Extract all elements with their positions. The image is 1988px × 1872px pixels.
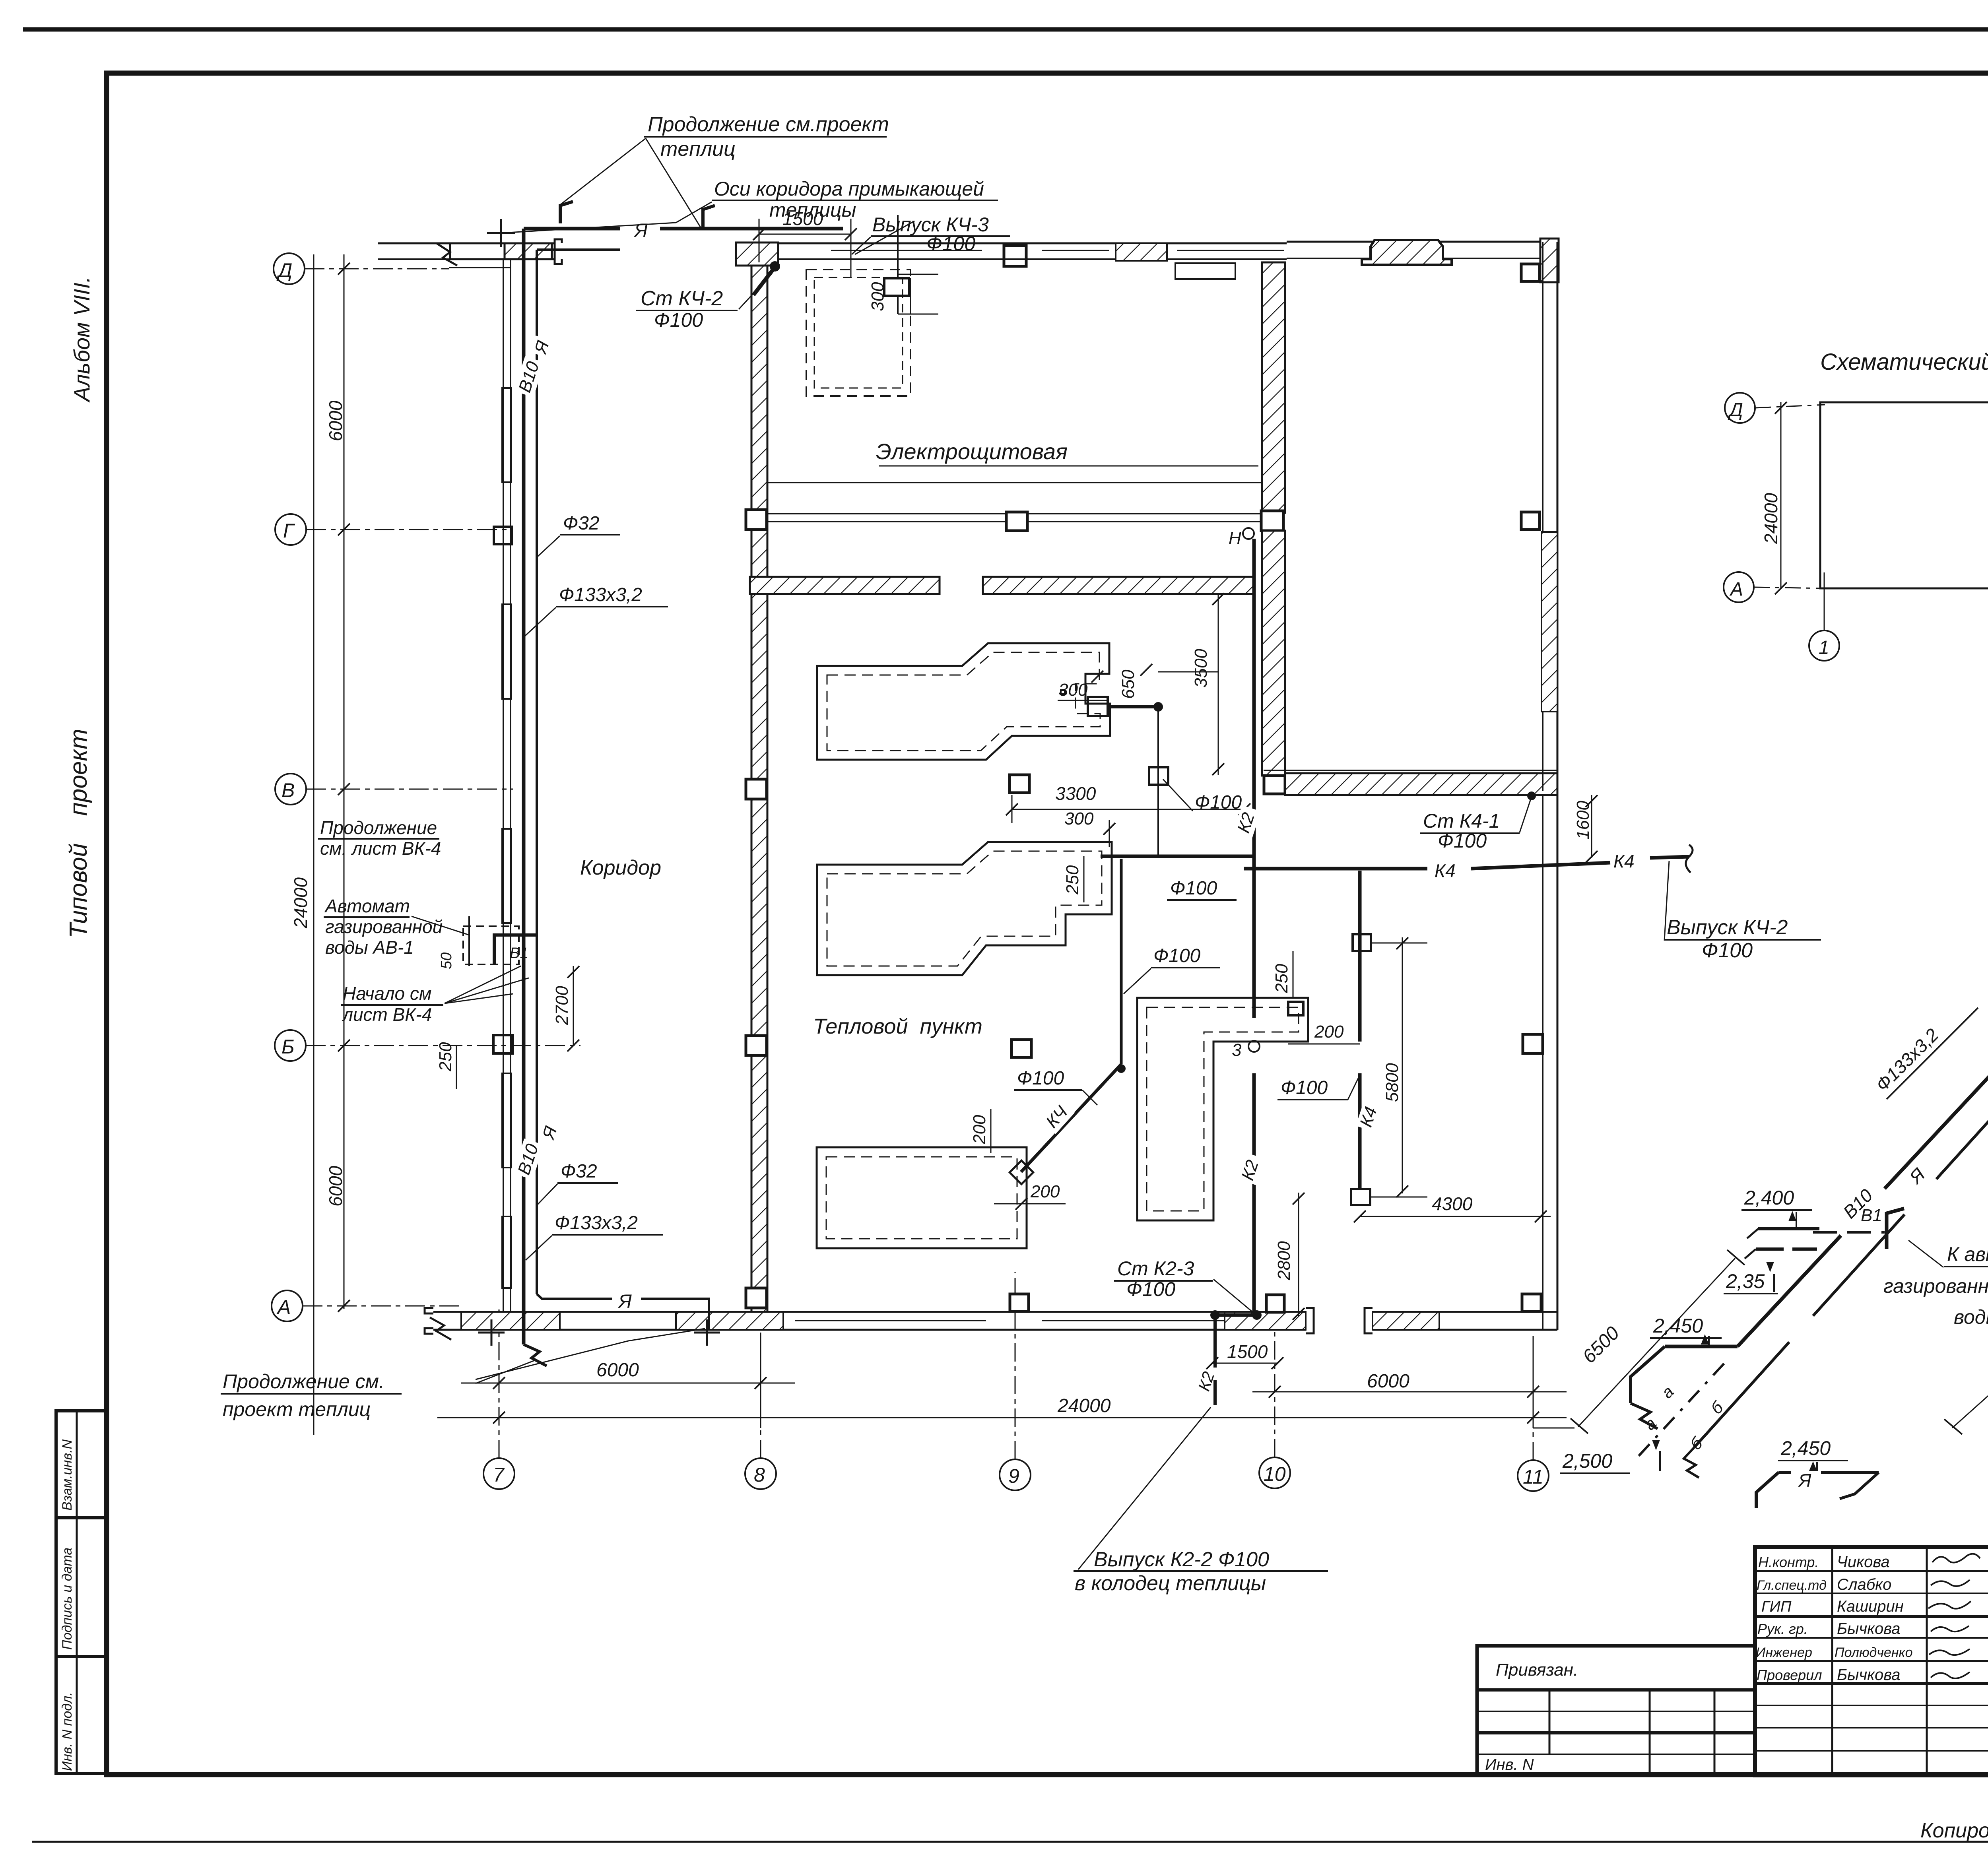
svg-text:6000: 6000 <box>1367 1371 1409 1392</box>
schematic axis circle Д <box>1725 393 1755 423</box>
pipe В10 vertical <box>522 229 526 1344</box>
left dimension line <box>344 254 345 1309</box>
axis line Г <box>306 529 513 530</box>
svg-text:7: 7 <box>493 1464 505 1486</box>
svg-text:Слабко: Слабко <box>1837 1576 1891 1593</box>
labels К2 on stack <box>1233 805 1261 838</box>
svg-text:Ф100: Ф100 <box>1195 792 1242 813</box>
annex table box Привязан <box>1477 1646 1755 1775</box>
svg-text:2,400: 2,400 <box>1744 1187 1794 1209</box>
svg-text:Выпуск КЧ-2: Выпуск КЧ-2 <box>1667 916 1788 939</box>
svg-text:Бычкова: Бычкова <box>1837 1666 1901 1684</box>
south wall column block 10 <box>1266 1295 1284 1312</box>
horizontal pipe Ф100 <box>1101 855 1252 858</box>
svg-text:Ф100: Ф100 <box>1702 939 1753 962</box>
west wall window slot 3 <box>502 829 511 923</box>
К4 vertical stack <box>1358 871 1362 1042</box>
labels В10 Я lower <box>513 1139 544 1180</box>
west exterior wall lines <box>503 259 504 1312</box>
svg-text:24000: 24000 <box>290 877 311 929</box>
svg-text:Привязан.: Привязан. <box>1496 1660 1578 1680</box>
heat point valve <box>1088 697 1108 716</box>
svg-text:Г: Г <box>283 520 295 542</box>
south wall east segment <box>1373 1311 1557 1313</box>
svg-text:Бычкова: Бычкова <box>1837 1620 1901 1637</box>
transformer SW corner block <box>1264 776 1285 794</box>
top wall hatched pier 1 <box>1116 243 1167 261</box>
svg-text:1600: 1600 <box>1573 801 1593 840</box>
svg-text:Коридор: Коридор <box>580 856 661 879</box>
electrical room west end cap <box>736 242 778 266</box>
labels В10 Я on risers <box>514 356 545 398</box>
witness drop 8 <box>760 1336 761 1428</box>
corridor east wall column at В <box>746 779 767 799</box>
sheet outer top line <box>23 27 1988 32</box>
valve square mid <box>1149 767 1168 785</box>
svg-text:Инв. N: Инв. N <box>1485 1756 1534 1773</box>
svg-text:Полюдченко: Полюдченко <box>1835 1645 1913 1660</box>
svg-text:8: 8 <box>754 1464 765 1486</box>
svg-text:250: 250 <box>1063 865 1082 895</box>
schematic axis dashes Д <box>1755 405 1825 408</box>
bottom axis circle 9 <box>1000 1459 1031 1490</box>
equipment 2 outline <box>817 842 1112 975</box>
svg-text:В1: В1 <box>1861 1206 1882 1225</box>
dim 24800 diagonal line <box>1952 877 1988 1428</box>
svg-text:Д: Д <box>1728 400 1743 421</box>
axono Я diagonal <box>1694 1342 1789 1447</box>
svg-text:Ф100: Ф100 <box>1170 878 1217 899</box>
svg-text:300: 300 <box>1064 809 1094 828</box>
soda machine dashed box <box>806 270 911 396</box>
svg-text:50: 50 <box>438 952 455 969</box>
equipment 3 outline <box>817 1147 1027 1248</box>
axono В10 bottom step <box>1665 1345 1738 1348</box>
svg-text:2,450: 2,450 <box>1780 1437 1831 1459</box>
svg-text:Начало см: Начало см <box>343 983 431 1004</box>
svg-text:650: 650 <box>1118 669 1138 699</box>
axis circle Г <box>275 514 306 545</box>
КЧ-3 valve <box>884 278 909 296</box>
svg-text:300: 300 <box>868 282 887 311</box>
schematic axis dashes А <box>1754 587 1825 588</box>
side stamp divider rows <box>56 1516 107 1519</box>
link wall lower flange <box>449 267 511 268</box>
equipment 4 Г-shape <box>1137 998 1308 1220</box>
south wall column block 9 <box>1010 1294 1029 1311</box>
south wall west part <box>433 1311 1306 1313</box>
svg-text:Ст К4-1: Ст К4-1 <box>1423 810 1500 832</box>
svg-text:6000: 6000 <box>325 400 346 441</box>
axis circle Б <box>275 1030 306 1061</box>
svg-text:200: 200 <box>1030 1182 1060 1201</box>
signatures squiggles <box>1932 1554 1980 1563</box>
pipe Я vertical <box>536 250 538 1294</box>
left side stamp box <box>56 1411 107 1773</box>
schematic axis drop 1 <box>1824 572 1825 630</box>
svg-text:Ф133х3,2: Ф133х3,2 <box>555 1212 638 1234</box>
bottom dim line 6000 span 7-8 <box>461 1383 795 1384</box>
svg-text:250: 250 <box>436 1042 455 1072</box>
bottom dim line 24000 <box>437 1417 1567 1418</box>
svg-text:5800: 5800 <box>1382 1063 1402 1102</box>
svg-text:Инженер: Инженер <box>1756 1645 1812 1660</box>
node 3 circle <box>1248 1041 1260 1052</box>
transformer east column <box>1521 512 1540 530</box>
svg-text:Инв. N подл.: Инв. N подл. <box>60 1692 75 1771</box>
svg-text:3: 3 <box>1232 1040 1242 1060</box>
transformer west wall lower <box>1262 531 1285 776</box>
КЧ diamond at wall <box>1010 1160 1033 1184</box>
bottom axis circle 11 <box>1518 1460 1549 1491</box>
transformer west wall upper <box>1262 262 1285 513</box>
survey cross bottom left <box>478 1319 505 1346</box>
vent boxes under top wall <box>1175 263 1235 279</box>
svg-text:Схематический план: Схематический план <box>1820 349 1988 375</box>
svg-text:Электрощитовая: Электрощитовая <box>876 439 1068 464</box>
heat point north wall east segment <box>983 577 1254 594</box>
svg-text:Проверил: Проверил <box>1757 1667 1822 1683</box>
svg-text:2,450: 2,450 <box>1653 1315 1703 1337</box>
schematic axis circle 1 <box>1809 630 1839 661</box>
drop from node <box>1157 707 1159 856</box>
svg-text:Продолжение см.: Продолжение см. <box>223 1370 384 1393</box>
svg-text:24000: 24000 <box>1057 1395 1111 1416</box>
svg-text:250: 250 <box>1272 964 1291 993</box>
south wall break mark <box>430 1317 451 1340</box>
electrical room glazed partition <box>767 513 1262 514</box>
axis line Б <box>306 1045 580 1046</box>
svg-text:Подпись и дата: Подпись и дата <box>60 1548 75 1650</box>
svg-text:Ф32: Ф32 <box>561 1161 597 1182</box>
svg-text:Продолжение: Продолжение <box>320 817 437 838</box>
axis line А <box>303 1306 463 1307</box>
west wall window slot 4 <box>502 1073 511 1168</box>
svg-text:В: В <box>282 779 295 801</box>
flag 2,35 line <box>1756 1247 1817 1251</box>
top wall column block <box>1004 246 1026 266</box>
К2 outlet drop <box>1215 1313 1257 1317</box>
svg-text:4300: 4300 <box>1432 1193 1473 1214</box>
signature table texts <box>1485 1553 1988 1842</box>
svg-text:Н: Н <box>1229 528 1241 548</box>
flag 2,400 line <box>1758 1227 1819 1230</box>
svg-text:Я: Я <box>633 220 648 241</box>
dashed branch а-б <box>1638 1364 1724 1457</box>
axis 7 centerline <box>499 1308 500 1458</box>
КЧ diagonal dot <box>1117 1064 1126 1073</box>
svg-text:10: 10 <box>1264 1463 1286 1485</box>
riser mark right <box>703 206 715 229</box>
east wall column bottom <box>1522 1294 1541 1311</box>
dim 6500 diagonal <box>1578 1258 1735 1427</box>
svg-text:Гл.спец.тд: Гл.спец.тд <box>1757 1578 1827 1593</box>
К4 top square <box>1353 934 1371 951</box>
bottom axis circle 8 <box>745 1458 776 1489</box>
transformer top wall hatched pier <box>1362 240 1452 265</box>
axis circle В <box>275 774 306 805</box>
svg-text:1: 1 <box>1819 637 1829 658</box>
svg-text:Альбом VIII.: Альбом VIII. <box>69 276 94 403</box>
svg-text:лист ВК-4: лист ВК-4 <box>342 1004 432 1025</box>
svg-text:Я: Я <box>617 1291 632 1312</box>
east exterior wall lower <box>1542 795 1543 1330</box>
thin line from 11 axis to 6500 <box>1533 1428 1574 1429</box>
bottom axis circle 10 <box>1259 1457 1290 1488</box>
label КЧ on diagonal <box>1041 1099 1075 1134</box>
south wall window line 2 <box>1042 1320 1225 1321</box>
dim ticks left <box>338 263 350 275</box>
axis circle Д <box>274 253 305 284</box>
svg-text:200: 200 <box>970 1115 989 1145</box>
bottom axis circle 7 <box>483 1458 514 1489</box>
schematic rectangle <box>1820 402 1988 588</box>
svg-text:Продолжение см.проект: Продолжение см.проект <box>648 113 889 136</box>
leader lines top label <box>560 138 646 205</box>
svg-text:К4: К4 <box>1613 851 1635 871</box>
bottom Я branch <box>1778 1471 1791 1474</box>
black dot on electrical wall <box>770 261 780 272</box>
west wall window slot 5 <box>502 1216 511 1288</box>
pipe Я top run to riser <box>660 227 843 231</box>
axono В10 bottom tail <box>1631 1346 1665 1403</box>
КЧ diagonal pipe <box>1021 1064 1121 1172</box>
svg-text:Б: Б <box>282 1036 295 1058</box>
К2 stack vertical <box>1252 539 1256 1018</box>
transformer NE corner pier <box>1540 239 1559 282</box>
svg-text:Тепловой пункт: Тепловой пункт <box>813 1015 982 1038</box>
svg-text:2700: 2700 <box>552 986 572 1025</box>
schematic axis circle А <box>1724 572 1754 602</box>
svg-text:Оси коридора примыкающей: Оси коридора примыкающей <box>714 178 984 200</box>
svg-text:воды АВ-1: воды АВ-1 <box>325 937 414 958</box>
south wall window line 1 <box>795 1320 986 1321</box>
corridor east wall <box>751 266 767 1312</box>
top wall window sill lines <box>831 250 982 251</box>
south wall opening cap <box>1306 1308 1314 1333</box>
svg-text:в колодец теплицы: в колодец теплицы <box>1075 1572 1266 1595</box>
svg-text:Чикова: Чикова <box>1837 1553 1890 1571</box>
svg-text:Я: Я <box>1798 1470 1811 1491</box>
svg-text:300: 300 <box>1058 680 1088 700</box>
south wall hatched pier b <box>676 1312 783 1330</box>
witness drop 11 right <box>1533 1336 1534 1428</box>
svg-text:Ст К2-3: Ст К2-3 <box>1117 1257 1194 1280</box>
svg-text:1500: 1500 <box>1227 1341 1268 1362</box>
east wall column mid <box>1523 1034 1543 1053</box>
transformer south wall <box>1264 770 1557 771</box>
svg-text:6000: 6000 <box>596 1360 639 1381</box>
svg-text:Каширин: Каширин <box>1837 1598 1904 1615</box>
svg-text:Н.контр.: Н.контр. <box>1758 1554 1819 1570</box>
heat point north wall west segment <box>750 577 940 594</box>
corridor east wall column at А <box>746 1288 767 1308</box>
title block signature columns <box>1831 1547 1833 1775</box>
break mark on link wall <box>437 243 457 266</box>
svg-text:11: 11 <box>1523 1466 1543 1488</box>
corridor east wall column at Г <box>746 510 767 530</box>
svg-text:2,35: 2,35 <box>1726 1270 1765 1292</box>
pipe Я top corner <box>524 227 620 231</box>
svg-text:Ф32: Ф32 <box>563 513 600 534</box>
south wall hatched pier c <box>1225 1312 1306 1330</box>
svg-text:К4: К4 <box>1435 860 1456 881</box>
svg-text:9: 9 <box>1008 1465 1019 1487</box>
svg-text:В1: В1 <box>510 945 528 962</box>
axis line В <box>306 789 513 790</box>
vertical pipe Ф100 <box>1120 859 1123 1064</box>
axono В10 main diagonal <box>1738 1236 1841 1346</box>
riser mark left <box>560 202 573 223</box>
heat point stub horizontal <box>1108 705 1158 708</box>
transformer top wall <box>1287 241 1543 243</box>
west wall column at Б <box>493 1035 513 1053</box>
bottom dim line 6000 span 10-11 <box>1252 1391 1567 1393</box>
glazed partition center column <box>1006 512 1027 531</box>
svg-text:газированной: газированной <box>1883 1275 1988 1297</box>
pipe Я bottom run <box>537 1294 612 1299</box>
pipe В10 bottom hook <box>524 1344 547 1366</box>
svg-text:газированной: газированной <box>325 916 443 937</box>
heat point pipe node dot <box>1153 702 1163 712</box>
svg-text:воды: воды <box>1954 1306 1988 1328</box>
svg-text:Ст КЧ-2: Ст КЧ-2 <box>641 287 723 310</box>
side stamp divider vertical <box>76 1411 78 1773</box>
equipment 1 outline <box>817 643 1110 760</box>
svg-text:200: 200 <box>1314 1022 1344 1042</box>
equipment inner square of Г <box>1288 1002 1303 1015</box>
schematic vdim 24000 <box>1780 402 1782 588</box>
Ст КЧ-2 diagonal tick <box>753 269 774 295</box>
survey cross top left <box>487 219 515 247</box>
svg-text:Выпуск К2-2 Ф100: Выпуск К2-2 Ф100 <box>1094 1548 1269 1571</box>
svg-text:Ф100: Ф100 <box>654 309 703 331</box>
svg-text:Ф133х3,2: Ф133х3,2 <box>559 584 642 605</box>
transformer east wall <box>1542 242 1543 791</box>
svg-text:К автомату: К автомату <box>1947 1243 1988 1265</box>
south wall end cap left <box>425 1308 433 1334</box>
svg-text:3300: 3300 <box>1055 783 1096 804</box>
equipment square heat point <box>1010 775 1029 793</box>
valve square on soda pipe <box>1061 690 1065 694</box>
svg-text:Ф100: Ф100 <box>1281 1077 1328 1098</box>
К4 bottom square <box>1351 1189 1370 1205</box>
sheet bottom thin line <box>32 1841 1988 1843</box>
Вypusk КЧ-3 drop line <box>897 215 899 278</box>
svg-text:6000: 6000 <box>325 1166 346 1207</box>
svg-text:Ф100: Ф100 <box>1153 945 1201 966</box>
svg-text:2,500: 2,500 <box>1562 1450 1612 1472</box>
title block outer box <box>1755 1547 1988 1775</box>
axis circle А <box>272 1290 303 1321</box>
svg-text:Ф100: Ф100 <box>1017 1068 1064 1089</box>
transformer NE column block <box>1521 264 1540 281</box>
corridor east wall column at Б <box>746 1036 767 1055</box>
node Н circle <box>1243 528 1254 539</box>
svg-text:3500: 3500 <box>1191 649 1211 688</box>
west wall window slot 2 <box>502 604 511 699</box>
axis line Д <box>305 268 449 270</box>
label К4 rotated <box>1355 1099 1383 1132</box>
В1 branch symbol <box>1887 1209 1904 1249</box>
transformer east wall hatched segment <box>1541 532 1557 712</box>
svg-text:Копировал Полякова: Копировал Полякова <box>1920 1819 1988 1842</box>
axis 10 centerline <box>1274 1312 1276 1457</box>
svg-text:Рук. гр.: Рук. гр. <box>1757 1621 1808 1637</box>
svg-text:1500: 1500 <box>782 208 823 229</box>
svg-text:Типовой проект: Типовой проект <box>65 729 92 938</box>
survey cross bottom mid <box>694 1319 720 1346</box>
axis 8 centerline <box>760 1312 761 1458</box>
title block signature rows <box>1755 1570 1988 1572</box>
dashed branch to В1 <box>1813 1231 1885 1234</box>
svg-text:А: А <box>276 1296 291 1318</box>
КЧ break mark <box>1686 845 1693 873</box>
svg-text:ГИП: ГИП <box>1761 1598 1792 1615</box>
svg-text:Д: Д <box>276 259 292 281</box>
svg-text:А: А <box>1729 579 1743 600</box>
svg-text:теплиц: теплиц <box>660 138 736 161</box>
axis 9 centerline <box>1015 1272 1016 1459</box>
electrical room floor line <box>767 482 1262 483</box>
svg-text:24000: 24000 <box>1761 493 1781 544</box>
wall end cap at corridor top <box>555 239 562 264</box>
soda machine connection АВ-1 <box>463 926 519 964</box>
svg-text:см. лист ВК-4: см. лист ВК-4 <box>320 838 441 859</box>
svg-text:проект теплиц: проект теплиц <box>223 1398 371 1420</box>
axis 11 centerline <box>1533 1336 1534 1460</box>
top wall electrical room <box>778 242 1287 244</box>
КЧ main horizontal <box>1244 867 1427 871</box>
top-left greenhouse link wall <box>378 242 450 244</box>
svg-text:2800: 2800 <box>1274 1241 1294 1280</box>
south wall hatched pier a <box>461 1312 560 1330</box>
west wall window slot 1 <box>502 388 511 482</box>
transformer west wall column <box>1261 511 1283 531</box>
left witness line <box>313 254 315 1435</box>
west wall column at Г <box>494 527 512 544</box>
svg-text:Взам.инв.N: Взам.инв.N <box>60 1439 75 1511</box>
svg-text:Автомат: Автомат <box>324 896 410 916</box>
